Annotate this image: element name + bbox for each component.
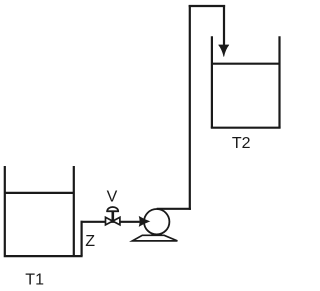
tank T2 left wall [211,36,213,127]
arrowhead into T2 [219,45,230,57]
pump base (trapezoid) [132,235,177,241]
tank T2 right wall [278,36,280,127]
wire: suction pipe horizontal to pump [81,221,140,223]
svg-text:V: V [107,189,118,206]
wire: downcomer into T2 [223,5,225,48]
pump U1 circle [144,209,169,234]
valve V body (bowtie) [106,217,120,225]
tank T1 level line [5,192,74,194]
valve stem [112,211,115,221]
wire: pump discharge horizontal [157,208,191,210]
valve actuator dome [107,207,118,211]
wire: suction pipe vertical from T1 bottom [80,221,82,256]
svg-text:Z: Z [85,233,95,250]
svg-text:T1: T1 [25,272,44,289]
tank T1 right wall [73,166,75,256]
svg-text:T2: T2 [232,135,251,152]
tank T1 [5,166,83,256]
tank T2 bottom [211,127,281,129]
tank T2 level line [212,63,280,65]
wire: riser vertical [189,5,191,210]
wire: top horizontal [189,5,225,7]
arrowhead into pump [139,217,149,227]
